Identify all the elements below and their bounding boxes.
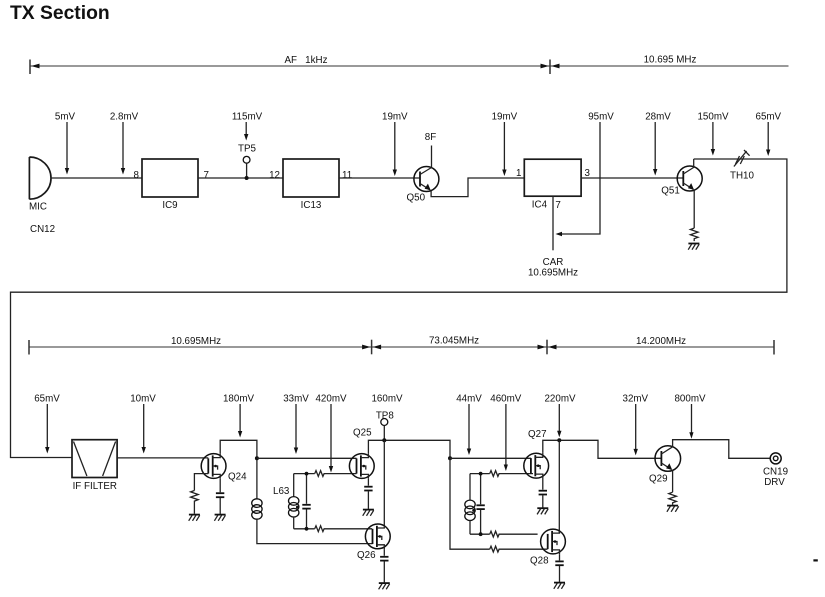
wire IC4 pin 7 CAR input xyxy=(552,196,554,250)
wire IC13 to Q50 xyxy=(339,177,420,179)
measure arrow 115mV xyxy=(232,112,263,141)
svg-text:Q50: Q50 xyxy=(407,192,426,203)
svg-text:8F: 8F xyxy=(425,132,436,143)
svg-text:TH10: TH10 xyxy=(730,171,755,182)
svg-text:180mV: 180mV xyxy=(223,394,255,405)
measure arrow 65mV (top) xyxy=(756,112,782,157)
filter IF FILTER xyxy=(72,440,117,492)
measure arrow 150mV xyxy=(697,112,729,156)
capacitor below Q27 xyxy=(539,491,547,508)
wire Q28 source to capacitor xyxy=(559,554,561,560)
measure arrow 19mV (2nd) xyxy=(492,112,518,177)
wire IC4 pin 3 to Q51 xyxy=(581,177,683,179)
wire Q50 emitter to IC4 pin 1 xyxy=(431,178,524,197)
inductor L63 xyxy=(273,474,299,529)
svg-text:19mV: 19mV xyxy=(492,112,518,123)
svg-text:L63: L63 xyxy=(273,486,290,497)
wire Q29 collector rail to CN19 xyxy=(673,440,771,459)
measure arrow 65mV (bottom row) xyxy=(34,394,60,454)
ground below Q28 xyxy=(554,583,565,589)
wire Q51 collector to rail xyxy=(693,159,695,167)
wire junction down to Q28 drain xyxy=(558,440,560,533)
wire junction down to Q28 gate bottom xyxy=(450,458,490,549)
svg-text:IC9: IC9 xyxy=(162,200,177,211)
wire Q27 drain rail to Q29 base xyxy=(543,440,662,458)
ground below Q24 capacitor xyxy=(214,515,225,521)
resistor tank2 top xyxy=(490,471,533,477)
svg-text:CN19: CN19 xyxy=(763,466,788,477)
node 8F collector lead xyxy=(425,132,436,167)
svg-text:12: 12 xyxy=(269,170,280,181)
resistor below Q51 xyxy=(690,228,698,241)
svg-text:IC4: IC4 xyxy=(532,200,548,211)
MOSFET Q26 xyxy=(357,524,390,561)
measure arrow 19mV xyxy=(382,112,408,177)
inductor tank2 xyxy=(465,474,475,535)
MOSFET Q28 xyxy=(530,529,565,566)
ground below Q51 xyxy=(688,244,699,250)
svg-text:73.045MHz: 73.045MHz xyxy=(429,336,479,347)
svg-text:10.695MHz: 10.695MHz xyxy=(528,267,578,278)
measure arrow 460mV xyxy=(490,394,522,472)
svg-text:Q26: Q26 xyxy=(357,550,376,561)
thermistor TH10 xyxy=(730,150,755,182)
measure arrow 33mV xyxy=(283,394,309,455)
capacitor tank2 xyxy=(476,472,484,536)
capacitor below Q28 xyxy=(555,561,563,582)
svg-text:95mV: 95mV xyxy=(588,112,614,123)
svg-text:28mV: 28mV xyxy=(645,112,671,123)
MOSFET Q27 xyxy=(524,429,549,479)
measure arrow 180mV xyxy=(223,394,255,438)
svg-text:800mV: 800mV xyxy=(674,394,706,405)
wire IC9 to IC13 xyxy=(198,177,283,179)
svg-text:TP5: TP5 xyxy=(238,144,257,155)
measure arrow 800mV xyxy=(674,394,706,439)
svg-text:44mV: 44mV xyxy=(456,394,482,405)
measure arrow 44mV xyxy=(456,394,482,456)
measure arrow 32mV xyxy=(623,394,649,456)
test point TP8 xyxy=(376,411,395,441)
node Q28 drain junction xyxy=(557,438,561,442)
svg-text:1: 1 xyxy=(516,168,521,179)
resistor below Q29 xyxy=(669,492,677,505)
measure arrow 28mV xyxy=(645,112,671,176)
svg-text:Q27: Q27 xyxy=(528,429,547,440)
svg-text:IC13: IC13 xyxy=(301,200,322,211)
wire junction to Q27 gate top xyxy=(450,457,531,459)
tank L63 top node xyxy=(294,473,315,475)
svg-text:CN12: CN12 xyxy=(30,224,55,235)
wire IF FILTER to Q24 gate xyxy=(117,457,208,459)
ground below Q24 resistor xyxy=(189,515,200,521)
connector CN19 DRV xyxy=(763,453,788,488)
resistor below Q24 gate xyxy=(191,491,199,514)
ground below Q26 xyxy=(379,583,390,589)
microphone MIC xyxy=(29,157,51,212)
svg-text:65mV: 65mV xyxy=(34,394,60,405)
svg-text:TX Section: TX Section xyxy=(10,3,110,24)
svg-text:2.8mV: 2.8mV xyxy=(110,112,139,123)
IC IC4 xyxy=(524,159,581,210)
dimension line AF 1kHz xyxy=(30,55,789,75)
ground below Q25 xyxy=(363,510,374,516)
node TP8 junction xyxy=(382,438,386,442)
dimension line 10.695MHz / 73.045MHz / 14.200MHz xyxy=(29,336,774,355)
wire MIC to IC9 xyxy=(51,177,142,179)
svg-text:MIC: MIC xyxy=(29,201,47,212)
svg-text:10.695 MHz: 10.695 MHz xyxy=(644,55,697,66)
MOSFET Q25 xyxy=(349,428,374,479)
svg-text:8: 8 xyxy=(134,170,140,181)
svg-text:65mV: 65mV xyxy=(756,112,782,123)
wire Q24 drain to rail and down through coil xyxy=(220,440,257,499)
resistor stage2 lower xyxy=(490,546,548,552)
capacitor L63 tank xyxy=(302,472,310,531)
wire collector rail to right corner and down-left-down to IF filter xyxy=(11,159,787,458)
svg-text:11: 11 xyxy=(342,170,352,181)
tank2 top node xyxy=(470,473,490,475)
resistor L63 top xyxy=(315,471,357,477)
tank L63 bottom node xyxy=(294,528,315,530)
node CAR 10.695MHz xyxy=(528,257,578,278)
svg-text:19mV: 19mV xyxy=(382,112,408,123)
svg-text:10mV: 10mV xyxy=(130,394,156,405)
svg-text:14.200MHz: 14.200MHz xyxy=(636,336,686,347)
wire junction to Q25 gate top xyxy=(257,457,357,459)
tank2 bottom node xyxy=(470,533,490,535)
measure arrow 95mV with elbow to CAR pin 7 xyxy=(556,112,615,237)
measure arrow 10mV xyxy=(130,394,156,454)
IC IC9 xyxy=(142,159,198,211)
svg-text:CAR: CAR xyxy=(543,257,564,268)
svg-text:220mV: 220mV xyxy=(544,394,576,405)
svg-text:33mV: 33mV xyxy=(283,394,309,405)
svg-text:7: 7 xyxy=(555,200,560,211)
wire Q25 source to capacitor xyxy=(367,479,369,486)
svg-text:460mV: 460mV xyxy=(490,394,522,405)
wire Q51 emitter to resistor xyxy=(693,190,695,228)
capacitor below Q24 xyxy=(216,493,224,514)
svg-text:32mV: 32mV xyxy=(623,394,649,405)
wire Q25 drain to TP8 junction xyxy=(368,440,450,458)
svg-text:160mV: 160mV xyxy=(371,394,403,405)
node stage2 junction xyxy=(448,456,452,460)
svg-text:10.695MHz: 10.695MHz xyxy=(171,336,221,347)
ground below Q27 xyxy=(537,508,548,514)
resistor tank2 bottom xyxy=(490,531,538,537)
svg-text:5mV: 5mV xyxy=(55,112,76,123)
svg-text:Q28: Q28 xyxy=(530,556,549,567)
wire coil bottom to Q26 gate bottom xyxy=(257,519,373,544)
capacitor below Q26 xyxy=(380,557,388,583)
svg-text:IF FILTER: IF FILTER xyxy=(73,481,117,492)
inductor in Q24 drain branch xyxy=(252,499,262,519)
wire Q29 emitter to resistor xyxy=(672,470,674,492)
wire Q26 source to capacitor xyxy=(383,549,385,556)
transistor Q51 xyxy=(661,166,702,197)
transistor Q50 xyxy=(407,167,439,204)
test point TP5 xyxy=(238,144,257,180)
svg-text:7: 7 xyxy=(204,170,209,181)
measure arrow 5mV xyxy=(55,112,76,175)
svg-text:150mV: 150mV xyxy=(697,112,729,123)
resistor L63 bottom xyxy=(315,526,372,532)
MOSFET Q24 xyxy=(201,453,247,482)
mark dash bottom right xyxy=(813,559,817,561)
transistor Q29 xyxy=(649,446,681,485)
svg-text:Q24: Q24 xyxy=(228,472,247,483)
wire Q24 source to capacitor xyxy=(219,479,221,493)
ground below Q29 xyxy=(667,506,679,512)
svg-text:420mV: 420mV xyxy=(315,394,347,405)
wire TP8 junction down to Q26 drain xyxy=(383,440,385,525)
wire Q27 source to capacitor xyxy=(542,479,544,490)
svg-text:Q25: Q25 xyxy=(353,428,372,439)
measure arrow 2.8mV xyxy=(110,112,139,175)
svg-text:Q51: Q51 xyxy=(661,186,680,197)
measure arrow 420mV xyxy=(315,394,347,473)
capacitor below Q25 xyxy=(364,487,372,509)
wire Q24 gate bottom to bias resistor xyxy=(194,474,208,491)
svg-text:Q29: Q29 xyxy=(649,473,668,484)
svg-text:115mV: 115mV xyxy=(232,112,263,123)
IC IC13 xyxy=(283,159,339,211)
node junction Q24 drain / stage wire xyxy=(255,456,259,460)
svg-text:DRV: DRV xyxy=(764,477,785,488)
measure arrow 220mV xyxy=(544,394,576,438)
svg-text:AF 1kHz: AF 1kHz xyxy=(284,55,327,66)
